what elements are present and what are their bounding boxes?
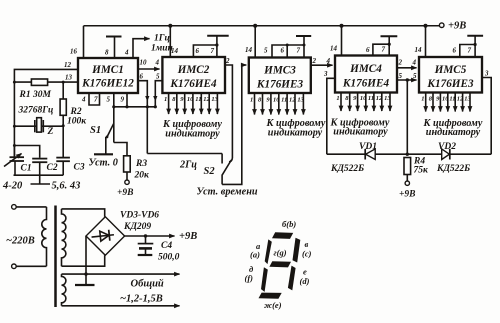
wire pin14 ИМС4 to rail [341, 26, 343, 56]
rail junction ИМС4 [340, 24, 344, 28]
ИМС4 output arrows to indicator [341, 93, 390, 112]
pin6 down arrowhead [145, 96, 149, 102]
svg-text:б(b): б(b) [282, 219, 296, 229]
svg-text:13: 13 [211, 96, 218, 103]
svg-text:2Гц: 2Гц [179, 160, 197, 171]
chassis T-bar on pin7 ИМС5 [467, 36, 483, 45]
wire pins 5-6-7 jumper ИМС3 [272, 45, 304, 58]
segment г middle [269, 261, 291, 267]
svg-text:е: е [303, 267, 307, 277]
junction R4 / diode bus [406, 153, 409, 156]
svg-text:Z: Z [47, 127, 54, 137]
svg-text:1Гц: 1Гц [154, 34, 170, 44]
svg-text:6: 6 [140, 73, 144, 81]
segment label е(d) [300, 267, 310, 287]
switch S1 [106, 107, 114, 154]
junction C2 branch / left bus [13, 144, 16, 147]
segment label в(c) [302, 239, 312, 259]
bridge rectifier VD3-VD6 [86, 217, 125, 256]
wire ИМС4 pin5 to ИМС5 pin5 [397, 79, 417, 81]
wire pin14 ИМС2 to rail [169, 26, 171, 57]
wire ИМС2 pin5 down to reset bus [155, 81, 162, 107]
svg-text:9: 9 [436, 96, 440, 103]
wire pin5 junction down to diode bus [406, 80, 408, 154]
svg-text:10: 10 [360, 95, 367, 102]
resistor R1 [31, 79, 47, 85]
svg-text:VD2: VD2 [438, 142, 456, 152]
svg-text:R3: R3 [135, 159, 147, 169]
svg-text:~1,2-1,5В: ~1,2-1,5В [120, 294, 163, 305]
svg-text:S1: S1 [90, 125, 101, 136]
capacitor C4 [138, 236, 154, 254]
svg-text:4: 4 [326, 57, 331, 65]
svg-text:9: 9 [266, 97, 270, 104]
svg-text:С4: С4 [161, 241, 172, 251]
svg-text:Уст. времени: Уст. времени [197, 187, 258, 198]
svg-text:VD1: VD1 [359, 142, 377, 152]
wire pin4 ИМС1 1Hz/1min output arrow [133, 39, 150, 58]
svg-text:индикатору: индикатору [333, 127, 388, 138]
junction 2Hz drop/bus [146, 105, 149, 108]
svg-text:ИМС5: ИМС5 [434, 64, 467, 76]
svg-text:4: 4 [124, 49, 129, 57]
quartz crystal Z symbol [35, 118, 44, 133]
transformer T1 core [54, 206, 57, 308]
svg-text:ИМС2: ИМС2 [177, 64, 210, 76]
svg-text:С1: С1 [21, 164, 32, 174]
resistor R4 [404, 158, 411, 182]
svg-text:9: 9 [353, 95, 357, 102]
svg-text:5: 5 [107, 96, 111, 104]
svg-text:9: 9 [180, 96, 184, 103]
К цифровому индикатору label ИМС2 [162, 119, 222, 140]
common stub below C2 [31, 175, 51, 184]
svg-text:(d): (d) [300, 276, 310, 286]
svg-text:С3: С3 [74, 163, 85, 173]
svg-text:Общий: Общий [131, 279, 164, 290]
chassis T-bar on pin7 ИМС4 [381, 36, 398, 44]
svg-text:~220В: ~220В [6, 236, 35, 247]
segment б top [272, 232, 293, 239]
+9V rail terminal circle [439, 23, 444, 28]
svg-text:К176ИЕ12: К176ИЕ12 [81, 78, 134, 90]
junction pin7 jumper ИМС3 [303, 44, 306, 47]
ИМС1 bottom pins 4-7 jumper loop [89, 93, 100, 105]
svg-text:16: 16 [70, 48, 78, 56]
diode VD2 [442, 149, 450, 160]
ИМС2 pin5 down arrowhead [153, 96, 157, 102]
transformer T1 primary winding [42, 207, 47, 266]
svg-text:S2: S2 [204, 166, 216, 177]
junction pin7 jumper ИМС4 [388, 43, 391, 46]
svg-text:12: 12 [64, 61, 72, 69]
svg-text:500,0: 500,0 [158, 253, 180, 263]
svg-text:11: 11 [195, 96, 201, 103]
capacitor C3 [56, 158, 70, 176]
svg-text:5: 5 [399, 72, 403, 80]
svg-text:индикатору: индикатору [426, 127, 481, 138]
svg-text:10: 10 [273, 97, 280, 104]
svg-text:6: 6 [366, 46, 370, 54]
diode VD1 [365, 149, 375, 160]
svg-text:г(g): г(g) [274, 248, 287, 258]
svg-text:индикатору: индикатору [165, 129, 220, 140]
wire ИМС4 pin2 to ИМС5 pin4 [397, 67, 417, 69]
svg-text:(с): (с) [302, 249, 312, 259]
segment label а(a) [250, 241, 261, 260]
wire mains lower to primary [16, 265, 46, 267]
svg-text:ж(е): ж(е) [264, 300, 282, 310]
svg-text:8: 8 [258, 97, 262, 104]
svg-text:12: 12 [457, 96, 464, 103]
svg-text:13: 13 [65, 74, 73, 82]
svg-text:КД209: КД209 [123, 222, 151, 232]
wire pins 6-7 jumper ИМС4 [373, 44, 389, 55]
IC U5 ИМС5 К176ИЕ3 [419, 57, 482, 93]
svg-text:7: 7 [94, 96, 98, 104]
svg-text:8: 8 [345, 95, 349, 102]
svg-text:1: 1 [250, 97, 253, 104]
ИМС5 bottom pin number labels [421, 96, 471, 103]
+9V power rail [84, 25, 440, 27]
oscillator bottom common wire [14, 174, 64, 176]
svg-text:14: 14 [330, 45, 338, 53]
wire pin14 ИМС3 to rail [254, 26, 256, 58]
svg-text:9: 9 [121, 96, 125, 104]
diode bus wire VD1-VD2 [327, 153, 491, 155]
wire pin13 ИМС1 R1 line [14, 81, 79, 83]
svg-text:12: 12 [376, 95, 383, 102]
wire C2 branch [14, 146, 39, 158]
svg-text:13: 13 [464, 96, 471, 103]
svg-text:+9В: +9В [117, 188, 134, 198]
wire pin5 ИМС1 down [113, 93, 115, 107]
junction pin5/bus [112, 105, 115, 108]
wire bridge common down to chassis [85, 236, 87, 284]
junction ИМС2 pin5 drop/bus [154, 105, 157, 108]
svg-text:32768Гц: 32768Гц [18, 106, 54, 116]
rail junction ИМС2 [168, 24, 172, 28]
wire ИМС3 pin2 to ИМС4 pin4 [311, 64, 333, 66]
svg-text:11: 11 [281, 97, 287, 104]
resistor R3 [114, 143, 130, 181]
svg-text:5,6. 43: 5,6. 43 [52, 181, 81, 192]
junction quartz line / R2 bottom [62, 124, 65, 127]
svg-text:14: 14 [171, 47, 179, 55]
switch S2 [222, 154, 231, 185]
junction quartz line / left bus [13, 125, 16, 128]
svg-text:5: 5 [413, 72, 417, 80]
wire ИМС4 pin3 to diode line [327, 78, 335, 154]
segment ж bottom [259, 293, 282, 299]
wire pin12 ИМС1 to oscillator bus [14, 69, 78, 157]
junction pin9/bus [125, 105, 128, 108]
svg-text:+9В: +9В [399, 190, 416, 200]
filament output arrow [62, 305, 180, 307]
chassis T-bar on pin7 ИМС2 [207, 36, 229, 45]
svg-text:10: 10 [442, 96, 449, 103]
reset bus wire under ИМС1 [114, 106, 156, 108]
svg-text:8: 8 [105, 49, 109, 57]
2Hz line to S2 [147, 153, 222, 155]
IC U3 ИМС3 К176ИЕ3 [249, 58, 311, 94]
svg-text:1: 1 [336, 95, 339, 102]
transformer T1 secondary winding 1 [62, 209, 66, 266]
svg-text:2: 2 [312, 57, 317, 65]
svg-text:12: 12 [289, 97, 296, 104]
svg-text:ИМС4: ИМС4 [349, 63, 382, 75]
svg-text:6: 6 [453, 47, 457, 55]
chassis T-bar on pin 8 ИМС1 [106, 37, 122, 59]
svg-text:К176ИЕ4: К176ИЕ4 [169, 78, 217, 90]
svg-text:К176ИЕ3: К176ИЕ3 [426, 78, 474, 90]
svg-text:в: в [305, 239, 309, 249]
svg-text:КД522Б: КД522Б [330, 164, 364, 174]
chassis T-bar on pin7 ИМС3 [296, 36, 311, 45]
svg-text:3: 3 [323, 70, 328, 78]
junction R4 riser / pin5 line [406, 78, 409, 81]
svg-text:(f): (f) [245, 273, 254, 283]
svg-text:12: 12 [203, 96, 210, 103]
wire ИМС5 pin3 to diode line [482, 78, 491, 155]
S2 hook contact [229, 158, 232, 162]
svg-text:5: 5 [264, 47, 268, 55]
svg-text:1: 1 [164, 96, 167, 103]
segment в upper-right [293, 238, 301, 263]
svg-text:11: 11 [368, 95, 374, 102]
R3 +9V terminal [125, 180, 129, 184]
ИМС3 bottom pin number labels [250, 97, 305, 104]
chassis plate power supply [75, 284, 95, 286]
Общий output arrow [62, 273, 180, 275]
junction pin7 jumper ИМС5 [474, 43, 477, 46]
quartz crystal Z wire [14, 125, 63, 127]
wire ИМС1 pin6 down to reset bus and 2Hz line [138, 81, 147, 154]
svg-text:14: 14 [245, 46, 253, 54]
svg-text:2: 2 [398, 59, 403, 67]
rail junction ИМС3 [253, 24, 257, 28]
ИМС2 bottom pin number labels [164, 96, 219, 103]
junction pin7 jumper ИМС2 [215, 43, 218, 46]
wire S2 to ИМС3 pin4 [222, 65, 246, 184]
junction pin6 jumper ИМС3 [286, 44, 289, 47]
rail junction ИМС5 [424, 24, 428, 28]
svg-text:(а): (а) [250, 250, 260, 260]
wire pin9 ИМС1 down [126, 93, 128, 107]
trimmer capacitor C1 [4, 146, 24, 176]
wire pin16 ИМС1 to +9V rail [83, 26, 85, 58]
svg-text:+9В: +9В [448, 21, 466, 32]
IC U2 ИМС2 К176ИЕ4 [162, 57, 225, 93]
wire ИМС1 pin10 to ИМС2 pin4 [138, 68, 160, 70]
transformer T1 secondary winding 2 [62, 274, 66, 306]
wire pins 6-7 jumper ИМС5 [460, 45, 475, 58]
wire ИМС2 pin2 to S2 [225, 65, 232, 158]
C4 chassis bar [138, 254, 153, 256]
svg-text:4-20: 4-20 [2, 181, 23, 192]
mains terminal upper [12, 205, 17, 210]
junction C4 [144, 234, 147, 237]
svg-text:индикатору: индикатору [268, 128, 323, 139]
svg-text:75к: 75к [414, 166, 430, 176]
IC U1 ИМС1 К176ИЕ12 [78, 58, 138, 93]
svg-text:Уст. 0: Уст. 0 [89, 158, 118, 169]
seven-segment indicator figure [259, 232, 301, 298]
svg-text:6: 6 [281, 47, 285, 55]
IC U4 ИМС4 К176ИЕ4 [335, 56, 397, 93]
svg-text:К176ИЕ3: К176ИЕ3 [256, 79, 304, 91]
capacitor C2 [32, 159, 47, 176]
svg-text:10: 10 [187, 96, 194, 103]
segment д lower-left [261, 267, 268, 292]
svg-text:R2: R2 [70, 107, 82, 117]
svg-text:13: 13 [384, 95, 391, 102]
К цифровому индикатору label ИМС4 [330, 118, 390, 138]
wire secondary1 top to bridge [62, 209, 105, 217]
ИМС4 bottom pin number labels [336, 95, 391, 102]
svg-text:К176ИЕ4: К176ИЕ4 [342, 78, 390, 90]
segment е lower-right [288, 266, 296, 291]
svg-text:11: 11 [449, 96, 455, 103]
junction R2 top on pin13 line [62, 81, 65, 84]
svg-text:6: 6 [196, 47, 200, 55]
svg-text:ИМС1: ИМС1 [91, 64, 124, 76]
svg-text:14: 14 [415, 46, 423, 54]
svg-text:7: 7 [211, 47, 215, 55]
svg-text:100к: 100к [67, 117, 87, 127]
segment label д(f) [245, 264, 255, 283]
svg-text:13: 13 [297, 97, 304, 104]
wire bridge plus output +9V arrow [125, 235, 175, 237]
junction pin13 line / left bus [13, 81, 16, 84]
К цифровому индикатору label ИМС5 [423, 118, 483, 138]
svg-text:R1 30М: R1 30М [19, 90, 52, 100]
К цифровому индикатору label ИМС3 [266, 118, 326, 139]
svg-text:2: 2 [225, 57, 230, 65]
wire pins 6-7 jumper ИМС2 [193, 45, 217, 57]
svg-text:С2: С2 [47, 163, 58, 173]
junction common / Общий line [84, 272, 87, 275]
svg-text:4: 4 [155, 59, 160, 67]
svg-text:КД522Б: КД522Б [436, 164, 470, 174]
svg-text:4: 4 [412, 59, 417, 67]
set-zero contact plate [94, 153, 113, 155]
svg-text:3: 3 [484, 70, 489, 78]
wire pin14 ИМС5 to rail [425, 26, 427, 57]
ИМС3 output arrows to indicator [255, 93, 304, 115]
wire secondary1 bottom to bridge [62, 255, 105, 266]
R4 +9V terminal [405, 181, 409, 185]
svg-text:7: 7 [382, 46, 386, 54]
ИМС5 output arrows to indicator [426, 93, 470, 112]
svg-text:VD3-VD6: VD3-VD6 [120, 211, 159, 221]
svg-text:20к: 20к [134, 171, 151, 181]
svg-text:7: 7 [297, 47, 301, 55]
svg-text:8: 8 [429, 96, 433, 103]
resistor R2 [60, 82, 66, 157]
mains terminal lower [12, 264, 17, 269]
svg-text:1: 1 [421, 96, 424, 103]
svg-text:10: 10 [140, 59, 148, 67]
svg-text:7: 7 [468, 47, 472, 55]
svg-text:4: 4 [81, 96, 86, 104]
svg-text:+9В: +9В [179, 231, 197, 242]
svg-text:ИМС3: ИМС3 [263, 65, 296, 77]
svg-text:5: 5 [156, 73, 160, 81]
segment а upper-left [265, 239, 272, 264]
wire mains upper to primary [16, 206, 46, 208]
svg-text:8: 8 [172, 96, 176, 103]
ИМС2 output arrows to indicator [169, 93, 218, 114]
